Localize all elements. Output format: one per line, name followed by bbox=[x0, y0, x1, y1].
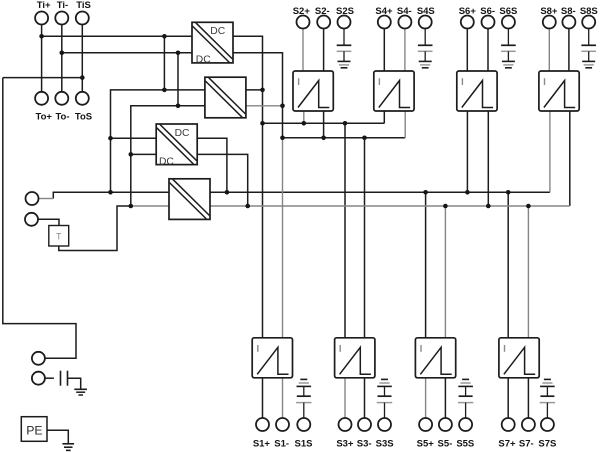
svg-text:S3-: S3- bbox=[357, 438, 372, 449]
svg-text:S5+: S5+ bbox=[417, 438, 435, 449]
svg-text:S3S: S3S bbox=[376, 438, 394, 449]
svg-text:S3+: S3+ bbox=[336, 438, 354, 449]
svg-text:S6+: S6+ bbox=[459, 6, 477, 17]
svg-text:Ti-: Ti- bbox=[57, 0, 68, 11]
svg-text:S1S: S1S bbox=[295, 438, 313, 449]
svg-text:S1+: S1+ bbox=[253, 438, 271, 449]
svg-text:S7S: S7S bbox=[538, 438, 556, 449]
svg-text:S4-: S4- bbox=[397, 6, 412, 17]
svg-text:Ti+: Ti+ bbox=[37, 0, 51, 11]
svg-text:S8-: S8- bbox=[561, 6, 576, 17]
svg-text:S4S: S4S bbox=[417, 6, 435, 17]
svg-text:S6S: S6S bbox=[499, 6, 517, 17]
svg-text:T: T bbox=[56, 231, 62, 241]
svg-text:S1-: S1- bbox=[274, 438, 289, 449]
svg-text:PE: PE bbox=[26, 423, 42, 437]
svg-text:DC: DC bbox=[159, 157, 174, 168]
svg-text:DC: DC bbox=[175, 128, 190, 139]
svg-text:S4+: S4+ bbox=[375, 6, 393, 17]
svg-text:DC: DC bbox=[196, 55, 211, 66]
svg-text:To+: To+ bbox=[35, 112, 52, 123]
svg-text:S8+: S8+ bbox=[540, 6, 558, 17]
svg-text:S7-: S7- bbox=[519, 438, 534, 449]
svg-text:S2-: S2- bbox=[315, 6, 330, 17]
svg-text:TiS: TiS bbox=[76, 0, 91, 11]
svg-text:S5-: S5- bbox=[438, 438, 453, 449]
svg-text:DC: DC bbox=[210, 26, 225, 37]
svg-text:S2+: S2+ bbox=[293, 6, 311, 17]
svg-text:ToS: ToS bbox=[75, 112, 92, 123]
svg-text:S5S: S5S bbox=[456, 438, 474, 449]
svg-text:To-: To- bbox=[55, 112, 69, 123]
svg-text:S7+: S7+ bbox=[498, 438, 516, 449]
svg-text:S8S: S8S bbox=[580, 6, 598, 17]
svg-text:S6-: S6- bbox=[480, 6, 495, 17]
svg-text:S2S: S2S bbox=[336, 6, 354, 17]
